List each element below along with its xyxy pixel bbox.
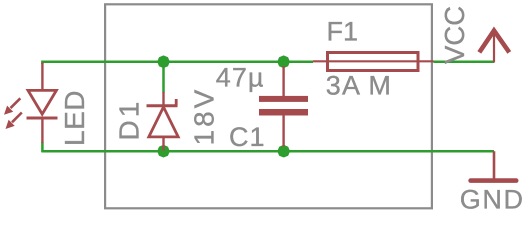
fuse F1: [313, 53, 434, 71]
label 47u value: [216, 63, 265, 93]
LED diode symbol: [4, 63, 58, 144]
junction node at bottom of C1: [277, 145, 290, 158]
junction node at bottom of D1: [157, 145, 170, 158]
capacitor C1: [259, 66, 308, 147]
label F1 name: [327, 16, 359, 46]
svg-text:47µ: 47µ: [216, 63, 265, 93]
GND supply symbol: [471, 151, 517, 180]
wire LED left branch vertical top corner: [41, 61, 44, 65]
wire top net N$1: [42, 61, 313, 64]
svg-text:VCC: VCC: [439, 6, 470, 64]
svg-text:F1: F1: [327, 16, 359, 46]
wire top right segment to VCC: [434, 61, 495, 64]
junction node at top of C1: [277, 55, 290, 68]
label 18V value: [189, 87, 220, 146]
svg-text:C1: C1: [229, 122, 266, 152]
svg-text:3A M: 3A M: [326, 71, 392, 101]
svg-text:18V: 18V: [189, 87, 220, 146]
label VCC net name: [439, 6, 470, 64]
junction node at top of D1: [157, 55, 170, 68]
label 3A M value: [326, 71, 392, 101]
wire bottom net GND: [42, 150, 494, 153]
svg-text:LED: LED: [59, 90, 90, 146]
VCC supply symbol: [479, 30, 509, 63]
label GND net name: [460, 185, 525, 215]
label C1 name: [229, 122, 266, 152]
label LED value: [59, 90, 90, 146]
wire LED left branch vertical bottom segment: [41, 142, 44, 152]
svg-text:D1: D1: [114, 99, 145, 141]
wire zener branch vertical segment: [162, 62, 165, 93]
label D1 name: [114, 99, 145, 141]
svg-text:GND: GND: [460, 185, 525, 215]
zener diode D1: [147, 92, 179, 151]
